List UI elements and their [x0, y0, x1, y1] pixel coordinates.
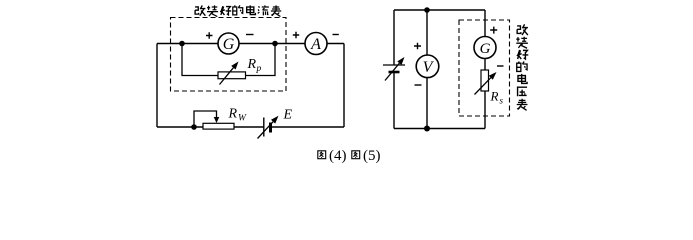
wire left vertical	[156, 44, 158, 128]
caption 图(4)	[318, 151, 326, 159]
voltmeter V	[416, 55, 439, 78]
svg-text:(5): (5)	[363, 148, 381, 164]
wire V branch lower	[426, 78, 428, 129]
wire right branch G-Rs	[484, 59, 486, 70]
wire bottom middle segment	[234, 126, 264, 128]
wire between G and A	[239, 43, 305, 45]
wire Rp branch left	[182, 44, 218, 76]
wire top left segment	[157, 43, 218, 45]
svg-text:A: A	[310, 36, 321, 53]
dashed box: modified voltmeter	[459, 20, 510, 116]
V plus sign	[414, 43, 421, 50]
label 改装好的电流表	[195, 5, 281, 16]
svg-text:R: R	[490, 89, 499, 104]
A plus sign	[293, 32, 299, 39]
A minus sign	[333, 34, 339, 36]
G2 minus sign	[497, 65, 504, 67]
svg-text:G: G	[480, 41, 491, 57]
node J3	[191, 124, 197, 130]
battery E short plate	[269, 123, 272, 133]
adjustable source long plate	[383, 64, 405, 66]
wire A to right corner	[327, 43, 344, 45]
node J5	[424, 126, 430, 132]
caption 图(5)	[352, 151, 360, 159]
svg-text:E: E	[283, 108, 293, 123]
wire Rp branch right	[246, 44, 276, 76]
RW wiper	[194, 111, 217, 125]
wire right vertical	[343, 44, 345, 128]
rheostat RW	[203, 123, 234, 129]
wire V branch upper	[426, 10, 428, 55]
svg-text:R: R	[247, 57, 257, 72]
ammeter A	[305, 33, 327, 55]
svg-text:G: G	[223, 36, 235, 53]
V minus sign	[415, 84, 422, 86]
node J2	[272, 41, 278, 47]
svg-text:(4): (4)	[329, 148, 347, 164]
wire bottom right segment	[271, 126, 344, 128]
galvanometer G1	[218, 33, 239, 54]
wire top	[394, 9, 485, 11]
svg-text:s: s	[500, 96, 504, 106]
wire left lower	[393, 73, 395, 129]
G1 plus sign	[206, 32, 213, 39]
label 改装好的电压表 (vertical)	[516, 24, 528, 110]
wire bottom left segment	[157, 126, 203, 128]
node J1	[179, 41, 185, 47]
galvanometer G2	[474, 37, 496, 59]
svg-text:W: W	[238, 114, 247, 124]
adjustable source short plate	[389, 71, 400, 74]
Rs rheostat arrow	[475, 78, 491, 95]
Rp rheostat arrow	[220, 68, 234, 85]
wire bottom	[394, 128, 485, 130]
svg-text:R: R	[228, 107, 238, 122]
adjustable source arrow	[385, 63, 399, 80]
resistor Rs	[481, 70, 489, 91]
resistor Rp	[218, 72, 246, 79]
dashed box: modified ammeter	[171, 18, 287, 92]
wire left upper	[393, 10, 395, 65]
svg-text:p: p	[256, 64, 262, 74]
battery E adjust arrow	[258, 122, 274, 139]
G2 plus sign	[490, 27, 497, 34]
wire right branch lower	[484, 91, 486, 129]
G1 minus sign	[246, 34, 254, 36]
wire right branch upper	[484, 10, 486, 37]
node J4	[424, 7, 430, 13]
battery E long plate	[263, 118, 265, 137]
